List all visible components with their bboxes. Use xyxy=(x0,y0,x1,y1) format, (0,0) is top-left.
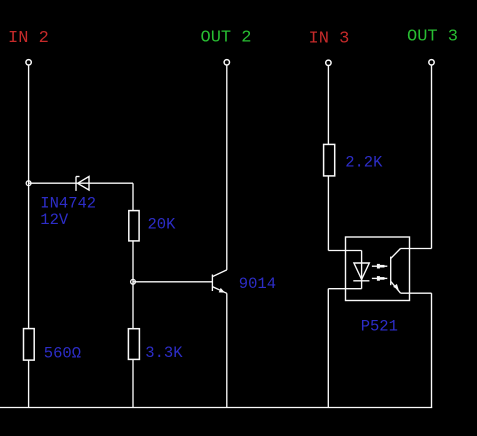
wire opto cathode horizontal xyxy=(328,288,361,290)
svg-text:12V: 12V xyxy=(40,211,69,229)
terminal IN 3 xyxy=(326,60,331,65)
wire ground bus xyxy=(0,407,432,409)
terminal OUT 3 xyxy=(429,60,434,65)
wire IN3 vertical xyxy=(327,66,329,251)
U1 phototransistor xyxy=(391,249,401,294)
diode D1 zener IN4742 xyxy=(76,177,89,191)
U1 coupling arrow 2 xyxy=(372,276,387,281)
op-amp U1 optocoupler P521 box xyxy=(346,237,410,301)
wire middle vertical xyxy=(132,183,134,407)
wire opto collector horizontal xyxy=(401,248,432,250)
svg-text:OUT 3: OUT 3 xyxy=(407,28,458,47)
wire right return vertical xyxy=(431,293,433,407)
svg-text:9014: 9014 xyxy=(239,275,276,293)
wire OUT2 collector vertical xyxy=(226,65,228,270)
node B junction xyxy=(131,279,136,284)
resistor R2 560 ohm xyxy=(24,329,35,361)
resistor R1 20K xyxy=(129,211,139,241)
wire opto emitter horizontal xyxy=(401,292,432,294)
svg-text:560Ω: 560Ω xyxy=(44,345,81,363)
svg-text:3.3K: 3.3K xyxy=(145,344,183,362)
svg-text:2.2K: 2.2K xyxy=(345,154,383,172)
wire base of Q1 xyxy=(133,281,212,283)
terminal IN 2 xyxy=(26,60,31,65)
wire opto anode horizontal xyxy=(328,250,361,252)
wire IN2 vertical xyxy=(28,65,30,407)
wire emitter vertical xyxy=(226,293,228,407)
wire node A horizontal to diode corner xyxy=(29,182,133,184)
svg-text:IN 3: IN 3 xyxy=(309,30,350,49)
U1 coupling arrow 1 xyxy=(372,264,387,269)
svg-text:20K: 20K xyxy=(148,216,177,234)
svg-text:IN4742: IN4742 xyxy=(40,195,96,213)
svg-text:OUT 2: OUT 2 xyxy=(201,29,252,48)
wire OUT3 vertical xyxy=(431,65,433,248)
svg-text:P521: P521 xyxy=(361,318,398,336)
resistor R4 2.2K xyxy=(324,144,335,176)
svg-text:IN 2: IN 2 xyxy=(8,29,49,48)
transistor Q1 9014 xyxy=(212,270,226,293)
wire left return vertical xyxy=(327,289,329,408)
terminal OUT 2 xyxy=(224,60,229,65)
U1 LED xyxy=(353,263,369,281)
node A junction xyxy=(26,181,31,186)
resistor R3 3.3K xyxy=(128,329,139,360)
wire LED anode drop xyxy=(361,251,363,289)
